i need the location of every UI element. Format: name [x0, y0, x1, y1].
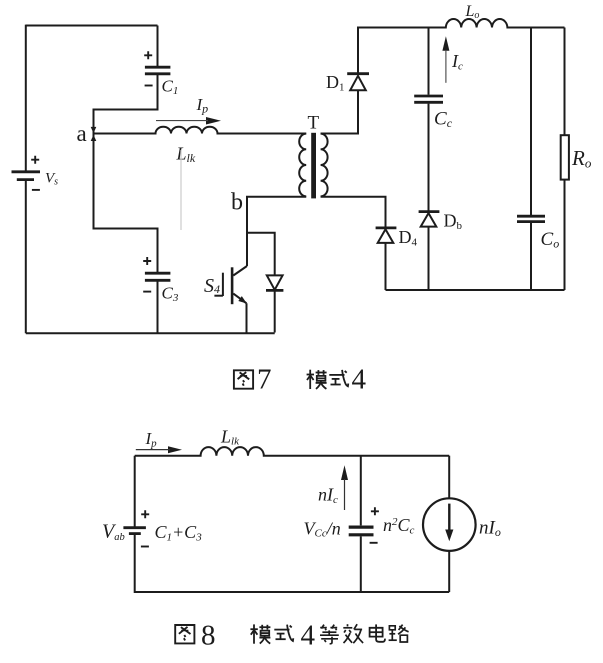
- svg-text:D4: D4: [399, 227, 418, 249]
- svg-text:b: b: [231, 190, 243, 216]
- svg-text:Llk: Llk: [220, 427, 240, 448]
- svg-text:Ic: Ic: [451, 51, 463, 73]
- svg-text:a: a: [77, 121, 87, 146]
- svg-text:Vs: Vs: [45, 171, 58, 188]
- svg-text:Vab: Vab: [102, 521, 125, 544]
- svg-text:S4: S4: [204, 275, 220, 297]
- svg-text:n2Cc: n2Cc: [383, 515, 415, 537]
- svg-text:Lo: Lo: [465, 3, 480, 21]
- svg-text:Ip: Ip: [196, 95, 209, 116]
- svg-text:Llk: Llk: [176, 144, 196, 166]
- svg-text:Ro: Ro: [571, 146, 592, 171]
- svg-text:8: 8: [201, 620, 216, 652]
- svg-text:Cc: Cc: [434, 109, 453, 131]
- svg-text:Co: Co: [541, 229, 560, 251]
- svg-text:T: T: [308, 113, 320, 134]
- svg-text:VCc/n: VCc/n: [304, 519, 341, 540]
- svg-text:D1: D1: [326, 72, 345, 94]
- svg-text:nIo: nIo: [479, 518, 501, 540]
- svg-text:C3: C3: [162, 284, 179, 305]
- svg-text:Db: Db: [444, 211, 463, 233]
- svg-text:4: 4: [352, 364, 367, 396]
- svg-text:nIc: nIc: [318, 485, 338, 507]
- svg-text:Ip: Ip: [145, 429, 158, 450]
- svg-text:C1: C1: [162, 77, 179, 98]
- svg-text:4: 4: [301, 620, 316, 652]
- svg-text:C1+C3: C1+C3: [155, 522, 203, 544]
- svg-text:7: 7: [257, 364, 272, 396]
